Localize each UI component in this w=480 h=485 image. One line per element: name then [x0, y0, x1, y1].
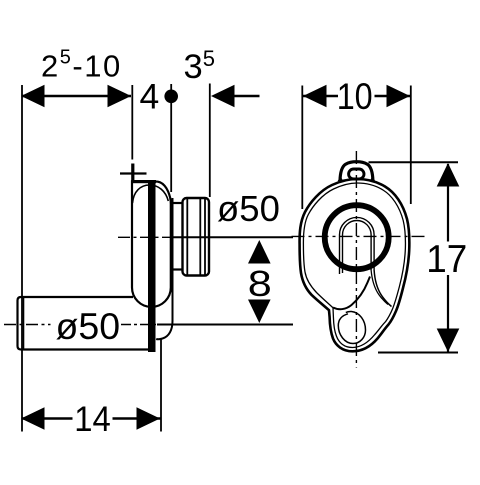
svg-text:17: 17 [426, 238, 467, 281]
svg-text:8: 8 [248, 264, 272, 304]
svg-text:ø50: ø50 [217, 188, 280, 229]
svg-text:25-10: 25-10 [41, 47, 122, 84]
svg-text:10: 10 [337, 76, 373, 117]
svg-text:ø50: ø50 [56, 305, 121, 347]
svg-text:4: 4 [140, 77, 160, 117]
svg-text:14: 14 [74, 400, 111, 439]
